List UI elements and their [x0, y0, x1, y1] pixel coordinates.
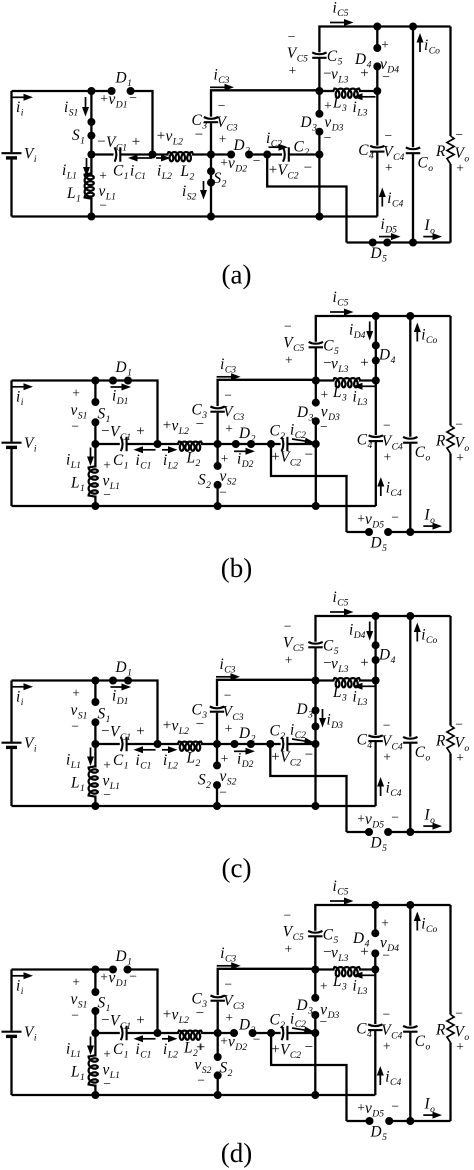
- svg-text:+: +: [225, 1010, 233, 1025]
- arrow i_D1 (c): [111, 684, 132, 691]
- svg-text:−: −: [224, 388, 232, 403]
- diode D4 (a): [373, 27, 381, 92]
- label v_L1 (a): [99, 183, 116, 202]
- svg-text:−: −: [384, 128, 392, 143]
- svg-text:+: +: [324, 98, 332, 113]
- label V_C4 (b): [382, 433, 403, 452]
- wire D5 row right (d): [389, 1120, 450, 1122]
- svg-text:+: +: [220, 155, 228, 170]
- label C5 (d): [323, 927, 339, 946]
- label L2 (a): [180, 163, 195, 182]
- label D4 (b): [378, 347, 396, 366]
- label i_Co (b): [421, 327, 437, 346]
- label i_C5 (c): [333, 589, 349, 608]
- node D2-C2 junction (a): [263, 151, 271, 159]
- label -V_C1 + (c): [101, 724, 144, 743]
- arrow i_L1 (c): [87, 748, 94, 767]
- arrow i_D5 (a): [379, 233, 401, 240]
- wire C5 branch (a): [319, 27, 450, 92]
- label V_C4 (c): [382, 733, 403, 752]
- label V_C4 plus (b): [383, 450, 391, 465]
- label V_C5 (c): [283, 635, 304, 654]
- arrow i_L1 (b): [87, 448, 94, 467]
- wire node2 to C2 (a): [267, 153, 282, 155]
- capacitor C4 branch wire (c): [374, 681, 376, 807]
- inductor L3 (a): [319, 89, 377, 98]
- wire i_C3 rail (a): [211, 90, 319, 154]
- arrow i_i (a): [13, 94, 34, 101]
- wire C3node to D2 (d): [218, 1032, 234, 1034]
- label D2 (c): [238, 725, 256, 744]
- arrow i_L2 (d): [162, 1035, 178, 1042]
- svg-text:−: −: [71, 1008, 79, 1023]
- node bypass1 junction (d): [154, 1029, 162, 1037]
- label V_i (b): [24, 435, 37, 454]
- label +v_L2 (c): [163, 718, 189, 737]
- label S1 (d): [98, 995, 111, 1014]
- label V_C3 plus (c): [225, 721, 233, 736]
- label C2 (c): [270, 723, 286, 742]
- svg-text:(c): (c): [222, 853, 252, 883]
- label i_C3 (d): [220, 945, 236, 964]
- label i_L1 (b): [66, 452, 81, 471]
- label R (c): [435, 733, 446, 750]
- label i_D3 (c): [327, 712, 344, 731]
- svg-text:+: +: [103, 1047, 111, 1062]
- svg-text:+: +: [72, 975, 80, 990]
- label L2 (d): [183, 1040, 205, 1059]
- label -v_L2 minus (d): [196, 1006, 204, 1022]
- svg-text:R: R: [435, 1022, 446, 1039]
- label V_o minus (b): [455, 417, 463, 432]
- arrow i_Co (d): [414, 912, 421, 931]
- label v_D4 plus (a): [381, 37, 389, 52]
- node D4 top (b): [372, 312, 380, 320]
- label S1 (c): [98, 706, 111, 725]
- capacitor C2 (a): [283, 147, 289, 161]
- svg-text:−: −: [103, 487, 111, 502]
- wire D3 to bottom rail (d): [314, 1033, 316, 1095]
- label i_S2 (a): [182, 183, 197, 202]
- node D4 top (a): [373, 23, 381, 31]
- diode D4 (b): [372, 316, 380, 381]
- label V_C5 plus (b): [285, 353, 293, 368]
- label i_C3 (a): [214, 67, 230, 86]
- diode D4 (c): [372, 616, 380, 681]
- label +V_C2 (b): [271, 449, 301, 468]
- node C3 bottom (b): [214, 440, 222, 448]
- wire C5 branch (b): [316, 316, 451, 381]
- node C3 bottom (c): [213, 740, 221, 748]
- svg-text:+: +: [320, 387, 328, 402]
- switch S1 (off) (c): [91, 681, 99, 745]
- wire C2 to D3 node (b): [287, 443, 315, 445]
- wire C5 branch (d): [315, 905, 450, 970]
- label v_D4 (a): [380, 56, 399, 75]
- label V_C3 plus (a): [219, 132, 227, 147]
- svg-text:−: −: [283, 908, 291, 923]
- capacitor C5 (a): [312, 52, 326, 57]
- capacitor C3 (c): [210, 707, 224, 712]
- label i_i (d): [16, 978, 24, 997]
- arrow i_C5 (c): [330, 609, 354, 616]
- wire C2 bypass (a): [267, 155, 346, 243]
- node S1-top junction (d): [91, 966, 99, 974]
- label D5 (b): [370, 535, 388, 554]
- svg-text:+: +: [456, 750, 464, 765]
- label V_C4 minus (b): [383, 418, 391, 433]
- label -v_D5 minus (b): [391, 510, 399, 525]
- arrow i_C3 (a): [210, 84, 234, 91]
- label -v_L2 minus (a): [195, 127, 203, 143]
- svg-text:+: +: [136, 724, 144, 740]
- wire i_C3 rail (c): [217, 680, 316, 744]
- svg-text:+: +: [285, 653, 293, 668]
- wire D5 row right (c): [388, 831, 450, 833]
- label i_L3 (d): [353, 978, 368, 997]
- label v_L1 (d): [103, 1062, 120, 1081]
- svg-text:+: +: [220, 1034, 228, 1049]
- arrow i_C1 (c): [134, 746, 156, 753]
- label V_o minus (d): [455, 1006, 463, 1021]
- label -v_D1 minus (d): [129, 969, 137, 984]
- diode D5 (d): [366, 1117, 394, 1125]
- node Co bottom junction (d): [406, 1117, 414, 1125]
- svg-text:+: +: [456, 1039, 464, 1054]
- label V_C3 (c): [223, 704, 244, 723]
- label V_C5 minus (c): [284, 619, 292, 634]
- svg-text:+: +: [100, 970, 108, 985]
- inductor L2 (c): [178, 742, 202, 751]
- wire node to C1 (d): [95, 1032, 119, 1034]
- label C4 (d): [356, 1021, 372, 1040]
- diode D1 (b): [109, 377, 132, 385]
- label V_o (c): [455, 735, 470, 754]
- label V_o minus (c): [455, 717, 463, 732]
- svg-text:+: +: [357, 511, 365, 526]
- node D3 bottom rail (d): [311, 1091, 319, 1099]
- label C4 (c): [357, 732, 373, 751]
- svg-text:−: −: [99, 198, 107, 213]
- diode D2 (b): [232, 440, 255, 448]
- svg-text:−: −: [218, 98, 226, 113]
- svg-text:−: −: [391, 1099, 399, 1114]
- node L3 right junction (d): [371, 966, 379, 974]
- label +v_D5 (b): [357, 511, 384, 530]
- label i_Co (c): [421, 627, 437, 646]
- label I_o (a): [424, 217, 436, 236]
- svg-text:−: −: [224, 688, 232, 703]
- label D4 (a): [354, 51, 372, 70]
- dc source V_i (d): [2, 970, 22, 1096]
- capacitor C2 (b): [282, 437, 288, 451]
- svg-text:−: −: [305, 447, 313, 463]
- label i_D2 (c): [237, 751, 254, 770]
- node Co top (b): [406, 312, 414, 320]
- label C5 (a): [327, 48, 343, 67]
- arrow i_L2 (b): [162, 446, 178, 453]
- label C3 (b): [192, 402, 208, 421]
- svg-text:−: −: [383, 718, 391, 733]
- capacitor C4 branch wire (a): [376, 91, 378, 217]
- label i_C4 (c): [386, 780, 402, 799]
- label C2 (d): [270, 1012, 286, 1031]
- label R (d): [435, 1022, 446, 1039]
- label D5 (c): [370, 835, 388, 854]
- label v_L1 (b): [103, 473, 120, 492]
- label V_C3 minus (c): [224, 688, 232, 703]
- label i_L2 (a): [157, 163, 172, 182]
- node L1 bottom (c): [91, 802, 99, 810]
- svg-text:−: −: [382, 69, 390, 84]
- svg-text:R: R: [435, 733, 446, 750]
- diode D2 (d): [230, 1029, 257, 1037]
- diode D2 (c): [231, 740, 255, 748]
- label V_C3 minus (a): [218, 98, 226, 113]
- label i_L3 (a): [353, 99, 368, 118]
- label +v_D2 (d): [220, 1034, 247, 1053]
- label -V_C2 minus (b): [305, 447, 313, 463]
- svg-text:+: +: [136, 424, 144, 440]
- svg-text:+: +: [225, 421, 233, 436]
- svg-text:+: +: [225, 721, 233, 736]
- label S2 (c): [198, 772, 211, 791]
- wire L2 to C3 node (d): [201, 1032, 218, 1034]
- label -v_D5 minus (d): [391, 1099, 399, 1114]
- arrow i_L2 (a): [156, 155, 171, 162]
- svg-text:+: +: [99, 168, 107, 183]
- label v_S1 plus (d): [72, 975, 80, 990]
- label I_o (b): [424, 507, 436, 526]
- wire D1 to bypass corner (a): [131, 91, 153, 155]
- node L1 bottom (a): [87, 213, 95, 221]
- label V_C5 (d): [283, 924, 304, 943]
- label -V_C2 minus (d): [305, 1040, 313, 1056]
- diode D5 (b): [365, 528, 392, 536]
- label V_o plus (d): [456, 1039, 464, 1054]
- arrow i_i (b): [13, 383, 34, 390]
- resistor R (a): [447, 27, 454, 243]
- label v_S1 (c): [71, 702, 88, 721]
- label i_L1 (a): [62, 162, 77, 181]
- label -v_L3 (c): [323, 656, 348, 675]
- capacitor C4 (a): [370, 146, 384, 152]
- dc source V_i (a): [2, 91, 22, 217]
- label V_C5 plus (c): [285, 653, 293, 668]
- label D4 (c): [378, 647, 396, 666]
- wire L2 to C3 node (c): [201, 743, 217, 745]
- label V_C4 (d): [381, 1022, 402, 1041]
- wire D3 to bottom rail (c): [314, 744, 316, 806]
- node D4 top (d): [371, 901, 379, 909]
- label v_D3 minus (b): [320, 419, 328, 434]
- svg-text:+: +: [136, 1013, 144, 1029]
- arrow i_C4 (b): [377, 477, 384, 496]
- arrow i_C3 (d): [217, 962, 241, 969]
- label S2 (d): [220, 1060, 233, 1079]
- svg-text:−: −: [455, 1006, 463, 1021]
- label D3 (d): [296, 997, 314, 1016]
- switch S2 (off) (b): [214, 444, 222, 506]
- arrow i_C5 (d): [330, 898, 354, 905]
- svg-text:−: −: [391, 510, 399, 525]
- svg-text:−: −: [284, 619, 292, 634]
- node S2 bottom (b): [214, 502, 222, 510]
- label C1 (b): [113, 452, 129, 471]
- label V_C3 minus (b): [224, 388, 232, 403]
- wire D5 row left (c): [347, 831, 370, 833]
- label v_S2 plus (d): [196, 1040, 204, 1055]
- node D3 bottom rail (a): [315, 213, 323, 221]
- svg-text:+: +: [221, 751, 229, 766]
- arrow i_C1 (d): [134, 1035, 156, 1042]
- label v_S1 minus (c): [71, 719, 79, 734]
- label -v_L2 minus (b): [196, 417, 204, 433]
- label -V_C1 + (a): [97, 134, 140, 153]
- label -V_C2 minus (c): [305, 747, 313, 763]
- label +v_D5 (d): [357, 1100, 384, 1119]
- arrow i_L3 (a): [353, 93, 376, 100]
- arrow i_L1 (a): [83, 158, 90, 177]
- wire D5 row left (d): [347, 1120, 370, 1122]
- capacitor Co (b): [403, 437, 417, 443]
- svg-text:−: −: [71, 419, 79, 434]
- label i_L2 (b): [163, 452, 178, 471]
- label i_C4 (a): [387, 190, 403, 209]
- label V_C3 minus (d): [224, 977, 232, 992]
- diode D5 (c): [365, 828, 392, 836]
- capacitor C4 (b): [369, 435, 383, 441]
- label C1 (a): [113, 163, 129, 182]
- arrow i_C4 (d): [377, 1066, 384, 1085]
- label v_S2 minus (b): [219, 485, 227, 500]
- capacitor C3 (d): [211, 996, 225, 1001]
- svg-text:−: −: [324, 130, 332, 145]
- svg-text:+: +: [381, 916, 389, 931]
- node L3 right junction (c): [372, 677, 380, 685]
- arrow i_C2 (c): [292, 738, 314, 745]
- arrow i_L3 (d): [353, 972, 376, 979]
- svg-text:+: +: [132, 134, 140, 150]
- label L3 (d): [332, 973, 347, 992]
- label Co (a): [418, 155, 434, 174]
- inductor L2 (b): [178, 442, 202, 451]
- svg-text:+: +: [103, 758, 111, 773]
- capacitor C4 branch wire (b): [375, 381, 377, 507]
- label Co (c): [415, 744, 431, 763]
- node S1-top junction (a): [87, 87, 95, 95]
- wire L2 to C3 node (b): [201, 443, 218, 445]
- wire D3 to bottom rail (a): [318, 155, 320, 217]
- label v_S1 minus (d): [71, 1008, 79, 1023]
- svg-text:−: −: [320, 419, 328, 434]
- svg-text:−: −: [391, 810, 399, 825]
- label Co (b): [415, 444, 431, 463]
- switch S2 (on) (a): [207, 155, 215, 217]
- node S2 bottom (d): [214, 1091, 222, 1099]
- resistor R (b): [447, 316, 454, 532]
- arrow i_C3 (c): [216, 673, 240, 680]
- label v_L1 plus (c): [103, 758, 111, 773]
- label L1 (b): [70, 475, 85, 494]
- resistor R (c): [447, 616, 454, 832]
- svg-text:+: +: [163, 718, 171, 734]
- capacitor C1 (d): [121, 1026, 127, 1040]
- capacitor Co branch wire (a): [412, 27, 414, 243]
- svg-text:R: R: [435, 143, 446, 160]
- label i_C2 (c): [290, 722, 306, 741]
- label i_L1 (c): [66, 752, 81, 771]
- capacitor C1 (c): [121, 737, 127, 751]
- label R (a): [435, 143, 446, 160]
- diode D1 (a): [108, 87, 135, 95]
- svg-text:−: −: [129, 969, 137, 984]
- label v_D3 (b): [321, 404, 340, 423]
- svg-text:R: R: [435, 433, 446, 450]
- label i_S1 (a): [64, 99, 78, 118]
- svg-text:−: −: [101, 1013, 109, 1029]
- label i_i (a): [16, 99, 24, 118]
- svg-text:−: −: [129, 90, 137, 105]
- svg-text:+: +: [284, 942, 292, 957]
- node Co top (d): [406, 901, 414, 909]
- inductor L3 (d): [315, 967, 375, 976]
- label V_C5 minus (a): [288, 29, 296, 44]
- arrow i_C3 (b): [217, 373, 241, 380]
- node L3 left junction (d): [311, 966, 319, 974]
- arrow i_Co (c): [414, 623, 421, 642]
- inductor L3 (b): [316, 378, 376, 387]
- label D3 (c): [296, 701, 314, 720]
- svg-text:−: −: [101, 424, 109, 440]
- label i_C5 (a): [333, 0, 349, 19]
- svg-text:+: +: [157, 128, 165, 144]
- svg-text:−: −: [103, 787, 111, 802]
- node L3 left junction (c): [312, 677, 320, 685]
- arrow i_C1 (a): [128, 155, 152, 162]
- wire top rail left (c): [12, 679, 114, 681]
- label V_o (b): [455, 435, 470, 454]
- label C4 (b): [357, 432, 373, 451]
- arrow i_i (c): [13, 683, 34, 690]
- label v_D3 plus (d): [320, 979, 328, 994]
- label i_C3 (b): [220, 356, 236, 375]
- arrow i_L3 (b): [353, 383, 376, 390]
- wire i_C3 rail (d): [218, 969, 316, 1033]
- resistor R (d): [447, 905, 454, 1121]
- label S2 (a): [214, 170, 227, 189]
- svg-text:+: +: [271, 749, 279, 765]
- wire bottom rail (d): [12, 1094, 376, 1096]
- label V_C5 plus (d): [284, 942, 292, 957]
- wire C1 to L2 node (a): [120, 153, 168, 155]
- svg-text:(d): (d): [221, 1138, 252, 1168]
- dc source V_i (c): [2, 681, 22, 807]
- wire C2 bypass (d): [271, 1033, 346, 1121]
- label v_L1 plus (a): [99, 168, 107, 183]
- label v_S2 minus (c): [219, 785, 227, 800]
- label V_C4 minus (a): [384, 128, 392, 143]
- label i_D1 (b): [112, 388, 128, 407]
- arrow i_L2 (c): [162, 746, 178, 753]
- svg-text:−: −: [319, 1014, 327, 1029]
- label v_D3 minus (d): [319, 1014, 327, 1029]
- svg-text:−: −: [455, 417, 463, 432]
- label V_C3 (a): [217, 114, 238, 133]
- node D3 bottom rail (b): [312, 502, 320, 510]
- label D2 (d): [238, 1017, 256, 1036]
- wire C2 bypass (b): [271, 444, 347, 532]
